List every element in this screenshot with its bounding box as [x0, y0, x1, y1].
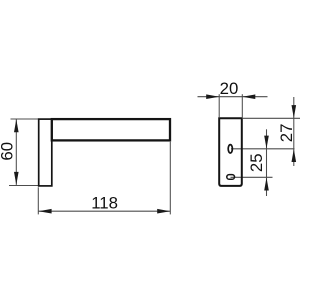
svg-text:60: 60	[0, 142, 17, 161]
svg-text:27: 27	[277, 124, 296, 143]
svg-text:25: 25	[247, 153, 266, 172]
svg-text:20: 20	[220, 79, 239, 98]
svg-text:118: 118	[91, 194, 118, 213]
